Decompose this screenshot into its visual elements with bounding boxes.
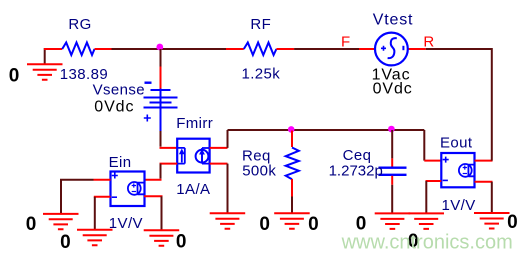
- svg-text:0: 0: [259, 214, 270, 235]
- wire (down to ground): [291, 197, 293, 214]
- wire (Eout left-top pin stub): [424, 160, 441, 162]
- svg-text:Vsense: Vsense: [93, 81, 145, 98]
- svg-text:0: 0: [308, 214, 319, 235]
- svg-text:500k: 500k: [242, 163, 276, 180]
- wire (gnd to RG pin): [44, 48, 62, 50]
- wire (Ein left-top pin stub): [94, 179, 111, 181]
- wire (F net to Vtest): [294, 48, 359, 50]
- wire (Ceq top pin): [391, 158, 393, 166]
- svg-text:0: 0: [26, 214, 37, 235]
- wire (RG to RF, through node): [112, 48, 227, 50]
- junction dot (Req node): [288, 126, 295, 133]
- battery Vsense: [144, 83, 178, 131]
- svg-text:1.25k: 1.25k: [242, 66, 281, 83]
- wire (bus corner down to Eout in): [423, 130, 425, 161]
- ground (below Eout out): [474, 213, 510, 229]
- svg-text:0Vdc: 0Vdc: [94, 99, 134, 116]
- resistor Req: [286, 148, 299, 180]
- svg-text:1V/V: 1V/V: [442, 197, 476, 214]
- svg-text:1V/V: 1V/V: [109, 215, 143, 232]
- ground (below Ceq): [375, 213, 411, 229]
- wire (down to ground): [161, 196, 163, 229]
- svg-text:0: 0: [9, 65, 20, 86]
- wire (Eout right-bottom pin stub): [475, 181, 493, 183]
- wire (Ein right-top pin stub): [144, 179, 162, 181]
- wire (down to ground): [391, 185, 393, 213]
- ground (below Req): [274, 213, 310, 229]
- ground (below Fmirr): [210, 213, 246, 229]
- svg-text:RG: RG: [68, 16, 91, 33]
- wire (down to ground): [94, 197, 96, 230]
- ground (below Eout minus): [409, 213, 445, 229]
- svg-text:1.2732p: 1.2732p: [329, 163, 383, 180]
- svg-text:Eout: Eout: [440, 134, 473, 151]
- wire (RF left pin stub): [226, 48, 244, 50]
- wire (pin to Vsense top): [160, 67, 162, 89]
- wire (Req bottom pin): [291, 179, 293, 197]
- svg-text:0Vdc: 0Vdc: [373, 80, 413, 97]
- wire (up to bus): [227, 130, 229, 148]
- ground (below Ein minus): [77, 230, 113, 246]
- svg-text:www.cntronics.com: www.cntronics.com: [341, 232, 513, 254]
- wire (down to ground): [227, 164, 229, 213]
- svg-text:1A/A: 1A/A: [176, 181, 210, 198]
- svg-text:RF: RF: [250, 16, 271, 33]
- svg-text:F: F: [341, 33, 350, 50]
- wire (Eout left-bottom pin stub): [426, 180, 442, 182]
- wire (Ein right-bottom pin stub): [144, 195, 163, 197]
- wire (Fmirr pin2 down to Ein out): [160, 164, 162, 179]
- wire (Ceq node down): [391, 130, 393, 158]
- wire (Ceq bottom pin): [391, 176, 393, 185]
- wire (RF right pin stub): [276, 48, 294, 50]
- controlled source Fmirr (CCCS): [177, 139, 209, 173]
- svg-text:Vtest: Vtest: [373, 11, 413, 28]
- controlled source Ein (VCVS): [111, 172, 145, 207]
- wire (Req top pin): [291, 131, 293, 148]
- svg-text:Fmirr: Fmirr: [176, 115, 213, 132]
- wire (Vtest left pin stub): [359, 48, 375, 50]
- junction dot (Ceq node): [388, 126, 395, 133]
- junction dot (top node): [156, 44, 163, 51]
- svg-text:0: 0: [507, 212, 518, 233]
- wire (down to ground): [425, 181, 427, 213]
- wire (to left ground): [61, 180, 94, 214]
- ground 0 (top-left): [27, 48, 63, 80]
- wire (R net: up and to Vtest): [426, 49, 492, 161]
- capacitor Ceq: [379, 168, 407, 175]
- controlled source Eout (VCVS): [441, 153, 474, 187]
- wire (RG right pin): [95, 48, 112, 50]
- wire (middle bus): [228, 129, 425, 131]
- wire (down to ground): [491, 182, 493, 213]
- svg-text:0: 0: [60, 232, 71, 253]
- wire (Vsense bottom down): [160, 131, 162, 147]
- wire (node down): [160, 49, 162, 67]
- wire (Fmirr pin 2 stub): [160, 163, 178, 165]
- resistor RG: [62, 43, 94, 56]
- wire (Eout right-top pin stub): [475, 160, 493, 162]
- wire (Ein left-bottom pin stub): [94, 196, 111, 198]
- resistor RF: [244, 43, 277, 56]
- wire (Fmirr right-bottom pin stub): [210, 163, 228, 165]
- ground (below Ein out): [144, 230, 180, 246]
- AC source Vtest: [375, 33, 408, 66]
- ground (far left bottom): [43, 214, 79, 229]
- svg-text:Ein: Ein: [109, 154, 132, 171]
- svg-text:0: 0: [176, 231, 187, 252]
- wire (Vtest right pin stub): [408, 48, 426, 50]
- wire (corner to Fmirr pin 1): [160, 147, 178, 149]
- wire (Fmirr right-top pin stub): [210, 147, 228, 149]
- svg-text:R: R: [423, 34, 434, 51]
